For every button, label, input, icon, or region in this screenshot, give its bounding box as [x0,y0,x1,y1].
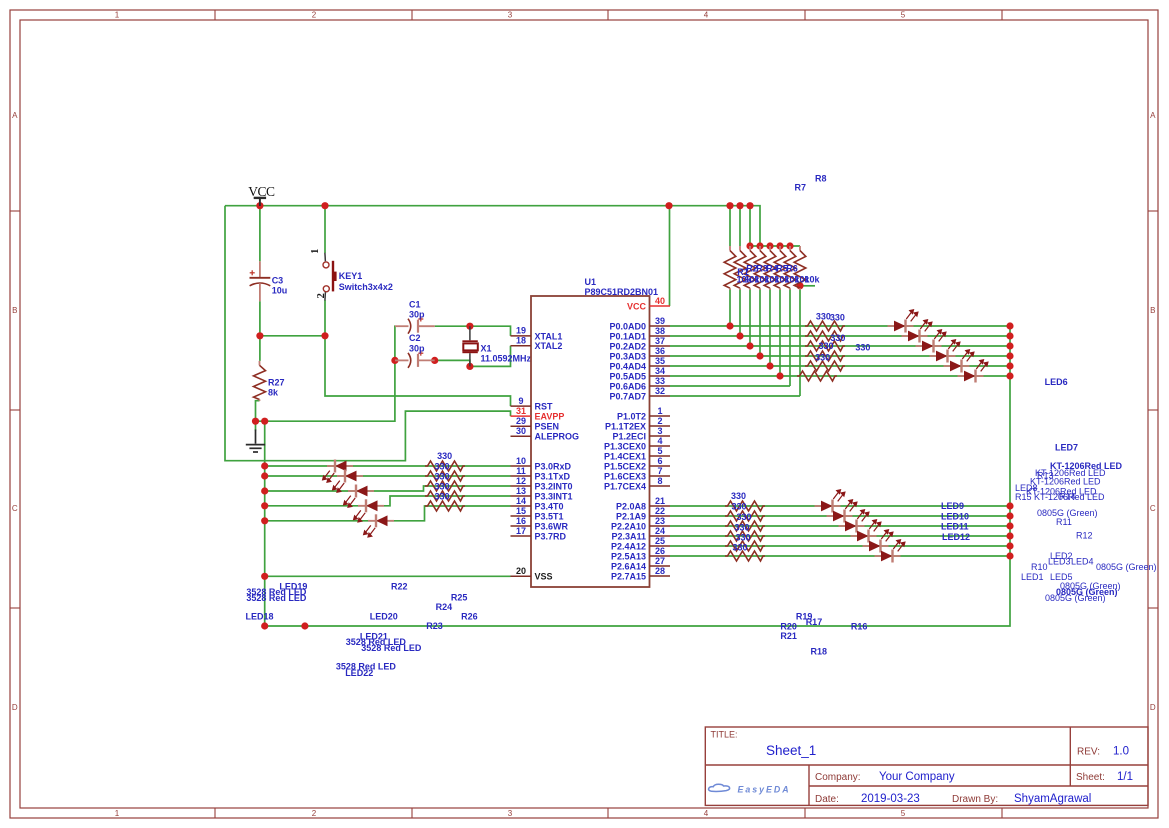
svg-text:330: 330 [437,451,452,461]
junction dots ground node [252,418,268,425]
wire P0.2 row pin 37 [670,345,1010,347]
wire R6 bottom to P0.5 [779,289,781,377]
pin 23 P2.2A10 of U1 [611,516,670,532]
pin 14 P3.4T0 of U1 [511,496,564,512]
LED22 3528 red [364,514,394,537]
pin 30 ALEPROG of U1 [511,426,580,442]
svg-text:R6: R6 [786,264,798,274]
svg-text:5: 5 [901,11,906,20]
svg-text:P0.2AD2: P0.2AD2 [609,341,646,351]
pin 4 P1.3CEX0 of U1 [604,436,670,452]
wire P0.7 row pin 32 [670,395,800,397]
pin 21 P2.0A8 of U1 [616,496,670,512]
wire VCC to KEY1 pin 1 [324,206,326,253]
LED12 0805 green [851,520,881,543]
wire VSS row pin 20 [265,575,511,577]
svg-text:LED10: LED10 [941,512,969,522]
wire R8 bottom to P0.7 [799,289,801,397]
svg-text:1: 1 [310,249,321,254]
svg-text:R25: R25 [451,593,468,603]
svg-text:R12: R12 [1076,531,1093,541]
svg-text:C: C [1150,504,1156,513]
svg-text:P0.5AD5: P0.5AD5 [609,371,646,381]
resistor R15 330 [725,551,765,561]
wire C3 bottom to KEY1 net [260,301,325,336]
svg-text:330: 330 [736,512,751,522]
svg-text:P2.1A9: P2.1A9 [616,511,646,521]
junction dots C3 KEY1 net [256,332,328,339]
resistor R4 10k [754,246,766,290]
pin 11 P3.1TxD of U1 [511,466,571,482]
pin 1 P1.0T2 of U1 [617,406,670,422]
svg-text:VSS: VSS [535,572,553,582]
svg-text:EAVPP: EAVPP [535,412,565,422]
LED5 KT-1206 red [944,350,974,373]
svg-text:330: 330 [734,523,749,533]
svg-text:P2.3A11: P2.3A11 [611,531,646,541]
svg-text:TITLE:: TITLE: [711,730,738,740]
svg-text:R17: R17 [806,617,823,627]
svg-text:P2.2A10: P2.2A10 [611,521,646,531]
resistor R13 330 [725,531,765,541]
wire R5 bottom to P0.4 [769,289,771,367]
svg-text:3: 3 [508,11,513,20]
resistor R14 330 [797,371,837,381]
svg-text:30p: 30p [409,343,425,353]
svg-text:Sheet:: Sheet: [1076,772,1105,783]
svg-text:P1.1T2EX: P1.1T2EX [605,421,646,431]
crystal X1 [462,326,477,366]
pin 9 RST of U1 [511,396,554,412]
svg-text:B: B [12,306,17,315]
svg-text:330: 330 [830,313,845,323]
svg-text:3528 Red LED: 3528 Red LED [361,643,422,653]
svg-text:33: 33 [655,376,665,386]
EasyEDA logo [709,784,791,794]
pin 17 P3.7RD of U1 [511,526,567,542]
wire R2 bottom to P0.1 [739,289,741,337]
LED6 KT-1206 red [958,360,988,383]
svg-text:VCC: VCC [248,184,275,199]
svg-text:P3.1TxD: P3.1TxD [535,471,571,481]
svg-text:LED7: LED7 [1055,443,1078,453]
pin 22 P2.1A9 of U1 [616,506,670,522]
wire VCC rail top [225,206,760,246]
wire C1 to XTAL1 pin 19 [435,326,511,336]
resistor R24 330 [425,481,465,491]
wire C2 to crystal bottom [435,360,470,366]
resistor R11 330 [805,341,845,351]
svg-text:2: 2 [312,809,317,818]
svg-text:29: 29 [516,416,526,426]
svg-text:21: 21 [655,496,665,506]
svg-text:VCC: VCC [627,301,647,311]
pin 27 P2.6A14 of U1 [611,556,670,572]
svg-text:ShyamAgrawal: ShyamAgrawal [1014,793,1091,805]
svg-text:D: D [1150,703,1156,712]
svg-text:330: 330 [434,481,449,491]
svg-text:PSEN: PSEN [535,422,560,432]
capacitor C1 [395,317,435,334]
svg-text:P3.5T1: P3.5T1 [535,511,564,521]
svg-text:XTAL2: XTAL2 [535,341,563,351]
resistor R5 10k [764,246,776,290]
svg-text:A: A [1150,111,1156,120]
svg-text:Sheet_1: Sheet_1 [766,743,816,758]
svg-text:2: 2 [657,416,662,426]
resistor R6 10k [774,246,786,290]
wire VCC to EA/VPP pin 31 [225,206,511,461]
svg-text:R22: R22 [391,582,408,592]
wire P2.2 row pin 23 [670,525,1010,527]
resistor R10 330 [725,501,765,511]
svg-text:330: 330 [731,491,746,501]
junction dots crystal [391,323,473,370]
resistor R2 10k [734,246,746,290]
wire P0.3 row pin 36 [670,355,1010,357]
LED20 3528 red [344,485,374,508]
svg-text:P2.4A12: P2.4A12 [611,541,646,551]
svg-text:R15 KT-1206Red LED: R15 KT-1206Red LED [1015,492,1105,502]
svg-text:P2.0A8: P2.0A8 [616,501,646,511]
title block frame [705,727,1148,805]
svg-text:0805G (Green): 0805G (Green) [1096,562,1157,572]
resistor R22 330 [425,461,465,471]
svg-text:30p: 30p [409,310,425,320]
svg-text:13: 13 [516,486,526,496]
LED19 3528 red [333,470,363,493]
svg-text:P2.5A13: P2.5A13 [611,551,646,561]
svg-text:7: 7 [657,466,662,476]
svg-text:12: 12 [516,476,526,486]
svg-text:26: 26 [655,546,665,556]
svg-text:LED9: LED9 [941,501,964,511]
svg-text:2: 2 [316,293,327,298]
svg-text:P3.2INT0: P3.2INT0 [535,481,573,491]
svg-text:R11: R11 [1056,517,1072,527]
svg-text:P1.0T2: P1.0T2 [617,411,646,421]
svg-text:1.0: 1.0 [1113,746,1129,758]
resistor R23 330 [425,471,465,481]
svg-text:P2.6A14: P2.6A14 [611,561,646,571]
svg-text:30: 30 [516,426,526,436]
svg-text:P3.6WR: P3.6WR [535,521,569,531]
svg-text:16: 16 [516,516,526,526]
svg-text:P1.7CEX4: P1.7CEX4 [604,481,646,491]
wire pullup R2 top [739,206,741,246]
svg-text:330: 330 [815,353,830,363]
svg-text:9: 9 [518,396,523,406]
resistor R9 330 [805,321,845,331]
svg-text:P1.6CEX3: P1.6CEX3 [604,471,646,481]
wire P0.6 row pin 33 [670,385,790,387]
svg-text:LED22: LED22 [345,668,373,678]
svg-text:LED6: LED6 [1045,377,1068,387]
svg-text:KEY1: KEY1 [339,271,363,281]
svg-text:32: 32 [655,386,665,396]
pin 35 P0.4AD4 of U1 [609,356,670,372]
svg-text:EasyEDA: EasyEDA [738,784,791,794]
wire R3 bottom to P0.2 [749,289,751,347]
svg-text:5: 5 [657,446,662,456]
svg-text:Switch3x4x2: Switch3x4x2 [339,282,393,292]
svg-text:2: 2 [312,11,317,20]
svg-text:P3.3INT1: P3.3INT1 [535,491,573,501]
svg-text:36: 36 [655,346,665,356]
pin 36 P0.3AD3 of U1 [609,346,670,362]
resistor R10 330 [805,331,845,341]
pin 15 P3.5T1 of U1 [511,506,564,522]
pin 37 P0.2AD2 of U1 [609,336,670,352]
svg-text:0805G (Green): 0805G (Green) [1045,593,1106,603]
svg-text:P3.0RxD: P3.0RxD [535,461,572,471]
wire R7 bottom to P0.6 [789,289,791,387]
wire R1 bottom to P0.0 [729,289,731,327]
svg-text:330: 330 [434,471,449,481]
svg-text:1: 1 [657,406,662,416]
capacitor C2 [395,351,435,368]
svg-text:LED1: LED1 [1021,572,1044,582]
LED9 0805 green [815,490,845,513]
svg-text:RST: RST [535,402,554,412]
svg-text:330: 330 [735,533,750,543]
pin 20 VSS of U1 [511,566,553,582]
svg-text:1: 1 [115,809,120,818]
svg-text:R26: R26 [461,612,478,622]
svg-text:37: 37 [655,336,665,346]
svg-text:R21: R21 [780,631,797,641]
pin 24 P2.3A11 of U1 [611,526,670,542]
svg-text:R16: R16 [851,622,868,632]
svg-text:R20: R20 [780,622,797,632]
svg-text:X1: X1 [481,343,492,353]
svg-text:11: 11 [516,466,526,476]
svg-text:XTAL1: XTAL1 [535,331,563,341]
pin 31 EAVPP of U1 [511,406,565,422]
wire bottom ground rail to right rail [265,326,1010,626]
capacitor C3 [250,261,271,301]
svg-text:40: 40 [655,296,665,306]
wire ground bus to C1/C2 [256,326,396,421]
svg-text:U1: U1 [585,277,597,287]
svg-text:8: 8 [657,476,662,486]
svg-text:3528 Red LED: 3528 Red LED [246,593,307,603]
LED2 KT-1206 red [902,320,932,343]
svg-text:22: 22 [655,506,665,516]
svg-text:330: 330 [731,502,746,512]
pin 28 P2.7A15 of U1 [611,566,670,582]
junction dots pullup bus [746,242,793,249]
svg-text:10k: 10k [804,274,820,284]
wire pullup R1 top [729,206,731,246]
resistor R3 10k [744,246,756,290]
pin 3 P1.2ECI of U1 [612,426,670,442]
wire VCC to C3 top [259,206,261,262]
svg-text:R24: R24 [436,602,453,612]
resistor R1 10k [724,246,736,290]
resistor R12 330 [725,521,765,531]
svg-text:R23: R23 [426,621,443,631]
svg-text:P1.5CEX2: P1.5CEX2 [604,461,646,471]
svg-text:P1.2ECI: P1.2ECI [612,431,646,441]
wire KEY1 pin 2 to RST pin 9 [325,300,511,406]
pin 8 P1.7CEX4 of U1 [604,476,670,492]
pin 18 XTAL2 of U1 [511,336,563,352]
svg-text:Your Company: Your Company [879,771,955,783]
junction dots right rail P0 [1006,322,1013,379]
resistor R7 10k [784,246,796,290]
wire P0.0 row pin 39 [670,325,1010,327]
svg-text:18: 18 [516,336,526,346]
LED21 3528 red [354,499,384,522]
wire P0.4 row pin 35 [670,365,1010,367]
switch KEY1 [323,253,337,301]
svg-text:8k: 8k [268,388,279,398]
pin 6 P1.5CEX2 of U1 [604,456,670,472]
svg-text:17: 17 [516,526,526,536]
wire R8 bottom stub [800,285,815,287]
svg-text:3: 3 [508,809,513,818]
svg-text:4: 4 [704,809,709,818]
wire R27 bottom lead [256,401,260,422]
svg-text:P0.3AD3: P0.3AD3 [609,351,646,361]
svg-text:P2.7A15: P2.7A15 [611,571,646,581]
LED11 0805 green [839,510,869,533]
wire P3.2 row pin 12 [265,486,511,491]
svg-text:34: 34 [655,366,665,376]
power flag VCC [254,198,266,206]
svg-text:330: 330 [855,343,870,353]
junction dot R8 bottom [796,282,803,289]
junction dots LED rail [261,462,268,580]
LED3 KT-1206 red [916,330,946,353]
wire P0.1 row pin 38 [670,335,1010,337]
svg-text:P3.7RD: P3.7RD [535,531,567,541]
svg-text:LED20: LED20 [370,612,398,622]
svg-text:B: B [1150,306,1155,315]
svg-text:38: 38 [655,326,665,336]
wire P2.3 row pin 24 [670,535,1010,537]
svg-text:REV:: REV: [1077,747,1100,758]
resistor R11 330 [725,511,765,521]
svg-text:20: 20 [516,566,526,576]
svg-text:15: 15 [516,506,526,516]
pin 12 P3.2INT0 of U1 [511,476,573,492]
svg-text:P0.6AD6: P0.6AD6 [609,381,646,391]
svg-text:1: 1 [115,11,120,20]
LED13 0805 green [863,530,893,553]
wire LED cathode rail left [264,421,266,626]
svg-text:P3.4T0: P3.4T0 [535,501,564,511]
wire P3.3 row pin 13 [265,496,511,506]
wire P2.5 row pin 26 [670,555,1010,557]
svg-text:P0.4AD4: P0.4AD4 [609,361,646,371]
svg-text:D: D [12,703,18,712]
pin 38 P0.1AD1 of U1 [609,326,670,342]
svg-text:23: 23 [655,516,665,526]
svg-text:27: 27 [655,556,665,566]
wire P0.5 row pin 34 [670,375,1010,377]
LED1 KT-1206 red [888,310,918,333]
svg-text:330: 330 [818,341,833,351]
wire P3.0 row pin 10 [265,465,511,467]
wire R4 bottom to P0.3 [759,289,761,357]
wire P3.4 row pin 14 [265,506,511,521]
resistor R27 8k [254,361,266,401]
junction dots P0 rows [726,322,783,379]
svg-text:P89C51RD2BN01: P89C51RD2BN01 [585,287,659,297]
svg-text:Drawn By:: Drawn By: [952,794,998,805]
resistor R8 10k [794,246,806,290]
wire P2.0 row pin 21 [670,505,1010,507]
svg-text:14: 14 [516,496,526,506]
svg-text:5: 5 [901,809,906,818]
LED4 KT-1206 red [930,340,960,363]
svg-text:R10: R10 [1031,562,1048,572]
svg-text:C1: C1 [409,300,421,310]
svg-text:6: 6 [657,456,662,466]
svg-text:P0.0AD0: P0.0AD0 [609,321,646,331]
svg-text:C: C [12,504,18,513]
svg-text:31: 31 [516,406,526,416]
pin 2 P1.1T2EX of U1 [605,416,670,432]
pin 26 P2.5A13 of U1 [611,546,670,562]
pin 10 P3.0RxD of U1 [511,456,572,472]
pin 13 P3.3INT1 of U1 [511,486,573,502]
resistor R14 330 [725,541,765,551]
svg-text:35: 35 [655,356,665,366]
pin 16 P3.6WR of U1 [511,516,569,532]
wire node to R27 top [259,336,261,361]
pin 34 P0.5AD5 of U1 [609,366,670,382]
svg-text:1/1: 1/1 [1117,771,1133,783]
pin 39 P0.0AD0 of U1 [609,316,670,332]
pin 7 P1.6CEX3 of U1 [604,466,670,482]
LED14 0805 green [875,540,905,563]
pin 5 P1.4CEX1 of U1 [604,446,670,462]
junction dots right rail P2 [1006,502,1013,559]
wire pullup top bus [750,245,800,247]
svg-text:39: 39 [655,316,665,326]
junction dots bottom rail [261,622,308,629]
svg-text:P1.4CEX1: P1.4CEX1 [604,451,646,461]
wire pullup R3 top [749,206,751,246]
pin 29 PSEN of U1 [511,416,560,432]
svg-text:330: 330 [434,461,449,471]
resistor R26 330 [425,501,465,511]
svg-text:Date:: Date: [815,794,839,805]
pin 40 VCC of U1 [627,296,670,312]
svg-text:10: 10 [516,456,526,466]
resistor R25 330 [425,491,465,501]
wire GND stem wire [255,421,257,430]
svg-text:330: 330 [434,491,449,501]
junction dots VCC rail [256,202,753,209]
ground symbol [246,430,265,453]
svg-text:4: 4 [704,11,709,20]
wire P2.1 row pin 22 [670,515,1010,517]
pin 32 P0.7AD7 of U1 [609,386,670,402]
IC U1 P89C51RD2BN01 body [531,296,650,587]
svg-text:R8: R8 [815,174,827,184]
svg-text:ALEPROG: ALEPROG [535,432,580,442]
svg-text:LED18: LED18 [246,612,274,622]
svg-text:Company:: Company: [815,772,861,783]
LED18 3528 red [323,460,353,483]
svg-text:330: 330 [732,543,747,553]
pin 25 P2.4A12 of U1 [611,536,670,552]
pin 19 XTAL1 of U1 [511,326,563,342]
